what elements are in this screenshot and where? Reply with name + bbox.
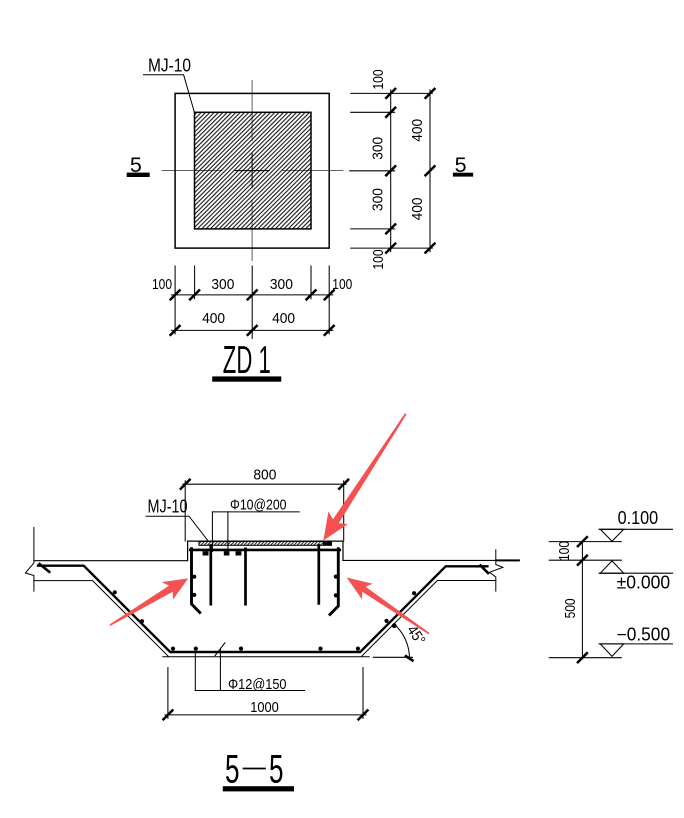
- svg-text:−0.500: −0.500: [617, 625, 671, 645]
- left break boundary line: [25, 528, 34, 592]
- label MJ-10 (plan): [144, 56, 195, 112]
- right dim chain B line: [429, 90, 431, 252]
- centerline vertical: [251, 81, 253, 261]
- svg-text:100: 100: [152, 276, 172, 293]
- PLAN VIEW ZD1: [127, 56, 474, 383]
- elevation symbol 0.100: [599, 508, 673, 541]
- centerline horizontal: [162, 170, 343, 172]
- elevation dim line: [581, 542, 583, 658]
- svg-text:1000: 1000: [250, 699, 279, 716]
- svg-text:500: 500: [562, 598, 579, 618]
- right dim chain A line: [390, 90, 392, 252]
- rebar dots on walls: [192, 575, 338, 598]
- svg-text:ZD 1: ZD 1: [223, 339, 271, 382]
- SECTION VIEW 5-5: [25, 467, 519, 792]
- svg-text:400: 400: [409, 197, 426, 220]
- label phi12@150 leader: [195, 643, 304, 693]
- rebar section squares under top bar: [203, 551, 242, 555]
- svg-text:400: 400: [409, 119, 426, 142]
- footing outline (outer square): [175, 93, 329, 248]
- rebar left wall bar with hook: [192, 549, 200, 613]
- rebar vertical bar 3: [317, 546, 320, 604]
- label MJ-10 (section): [146, 497, 208, 541]
- level line at -0.500: [549, 657, 621, 659]
- elevation symbol +-0.000: [599, 561, 673, 593]
- bottom dim chain 1 ticks: [171, 290, 334, 299]
- level line at +-0.000: [549, 559, 621, 561]
- title ZD1: [212, 339, 281, 382]
- 45 degree arc: [395, 625, 410, 658]
- rebar vertical bar 1: [209, 546, 212, 605]
- red arrow 3 (right, to right wall): [347, 578, 430, 635]
- svg-text:±0.000: ±0.000: [617, 572, 671, 592]
- bottom dim chain 2 line: [172, 329, 333, 331]
- svg-text:800: 800: [253, 467, 276, 484]
- rebar dots on pit bottom: [171, 647, 360, 651]
- bottom dim chain 2 ticks: [171, 326, 334, 335]
- right dim extension lines: [350, 93, 433, 248]
- svg-text:300: 300: [370, 188, 387, 211]
- svg-text:300: 300: [270, 276, 293, 293]
- dim 800 extension lines: [185, 481, 344, 541]
- svg-text:Φ10@200: Φ10@200: [230, 497, 287, 514]
- section mark 5 (left): [127, 153, 150, 177]
- dim 1000 ticks: [163, 710, 367, 719]
- elevation symbol -0.500: [599, 625, 673, 657]
- right dim chain A ticks: [386, 89, 395, 253]
- svg-text:400: 400: [202, 310, 225, 327]
- rebar vertical bar 2: [244, 549, 247, 604]
- elevation dim ticks: [578, 537, 587, 662]
- rebar dots on left slope: [113, 590, 144, 623]
- section mark 5 (right): [453, 153, 473, 177]
- bottom dim extension lines: [175, 266, 329, 339]
- svg-text:100: 100: [332, 276, 352, 293]
- title 5-5: [223, 748, 294, 792]
- dim 1000 line: [165, 714, 366, 716]
- pit excavation thick line: [38, 566, 487, 652]
- rebar top bar: [190, 549, 340, 552]
- embedded plate MJ-10 (hatched square): [195, 112, 312, 229]
- red arrow 2 (left, to left wall): [110, 578, 189, 626]
- dim 800 ticks: [181, 480, 349, 489]
- level line at 0.100: [549, 541, 621, 543]
- pedestal outline: [188, 541, 343, 560]
- dim 1000 extension lines: [168, 668, 363, 719]
- svg-text:MJ-10: MJ-10: [148, 497, 188, 517]
- svg-text:400: 400: [272, 310, 295, 327]
- label phi10@200: [212, 497, 299, 552]
- 45 arc end blob on slope: [392, 623, 397, 628]
- svg-text:100: 100: [556, 541, 573, 561]
- 45 arc arrow tick bottom: [406, 656, 412, 660]
- svg-text:100: 100: [370, 250, 387, 270]
- svg-text:100: 100: [370, 70, 387, 90]
- 45 degree reference line: [373, 656, 412, 658]
- rebar right wall bar with hook: [330, 549, 338, 615]
- svg-text:Φ12@150: Φ12@150: [228, 676, 287, 693]
- ELEVATION MARKERS: [549, 508, 672, 662]
- ground thick dash right: [496, 559, 520, 561]
- pit thick line right end tick: [481, 566, 489, 574]
- svg-text:0.100: 0.100: [618, 508, 659, 528]
- svg-text:5: 5: [225, 748, 240, 792]
- svg-text:300: 300: [211, 276, 234, 293]
- red arrow 1 (top, to plate right end): [323, 413, 406, 540]
- svg-text:MJ-10: MJ-10: [148, 56, 191, 76]
- ground line right: [343, 559, 496, 561]
- right break boundary line: [490, 550, 503, 591]
- ground line left: [34, 560, 188, 562]
- dim 800 line: [183, 483, 346, 485]
- pit thick line left end tick: [40, 564, 50, 572]
- right dim chain B ticks: [426, 89, 435, 253]
- RED ARROWS: [110, 413, 430, 634]
- rebar dots on right slope: [384, 591, 416, 623]
- pit lining thin line: [34, 581, 496, 657]
- bottom dim chain 1 line: [172, 294, 333, 296]
- svg-text:300: 300: [370, 137, 387, 160]
- embedded plate (hatched) in section: [199, 541, 332, 545]
- svg-text:5: 5: [269, 748, 284, 792]
